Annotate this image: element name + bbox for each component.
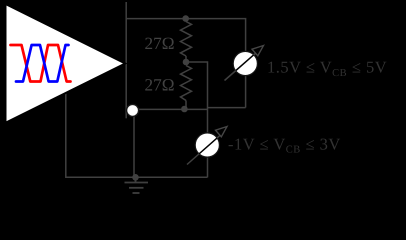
- wire vertical output bus: [125, 2, 127, 118]
- open terminal OUT: [127, 104, 139, 116]
- ground: [125, 177, 149, 193]
- wire resistor top stub: [185, 19, 187, 22]
- junction between resistors: [183, 59, 190, 66]
- driver amplifier U1: [6, 4, 126, 123]
- resistor R1 27ohm: [181, 22, 192, 57]
- svg-text:27Ω: 27Ω: [145, 76, 175, 95]
- wire resistor bottom stub: [185, 101, 187, 110]
- svg-text:-1V ≤ VCB ≤ 3V: -1V ≤ VCB ≤ 3V: [228, 134, 341, 155]
- eye diagram trace blue: [16, 45, 69, 82]
- source V2 circle: [195, 133, 219, 157]
- wire output node horizontal: [138, 108, 207, 110]
- source V1 arrow: [225, 46, 264, 81]
- wire R1 to mid node: [185, 56, 187, 62]
- svg-text:1.5V ≤ VCB ≤ 5V: 1.5V ≤ VCB ≤ 5V: [267, 58, 387, 79]
- junction output node: [181, 106, 188, 113]
- source V1 circle: [233, 51, 257, 75]
- resistor R2 27ohm: [181, 66, 192, 101]
- source V2 arrow: [187, 127, 227, 165]
- wire source V2 bottom lead: [207, 157, 209, 177]
- junction top of resistors: [182, 15, 189, 22]
- svg-text:27Ω: 27Ω: [145, 34, 175, 53]
- wire bottom rail: [66, 93, 208, 178]
- wire top rail: [126, 19, 245, 52]
- wire resistor mid tap: [186, 62, 208, 133]
- wire open-terminal down lead: [133, 116, 135, 177]
- wire source V1 bottom lead: [245, 76, 247, 108]
- eye diagram trace red: [11, 45, 71, 82]
- junction ground node: [132, 174, 139, 181]
